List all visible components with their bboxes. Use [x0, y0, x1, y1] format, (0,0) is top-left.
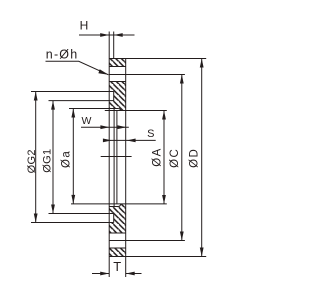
hatch upper rim block — [109, 59, 126, 67]
svg-text:H: H — [80, 19, 89, 33]
dimension H line — [79, 34, 135, 36]
flange top edge + OD extension — [109, 58, 206, 60]
arrow A bottom — [162, 195, 166, 204]
lower groove bottom wall — [113, 214, 115, 223]
hatch lower main block — [109, 204, 126, 233]
dimension W line — [81, 126, 129, 128]
hatch lower rim block — [109, 248, 126, 257]
leader n-Oh underline and leader — [46, 61, 109, 75]
bottom bolt hole upper edge — [109, 232, 126, 234]
arrow D top — [200, 59, 204, 68]
top bolt hole lower edge — [109, 81, 126, 83]
flange bottom edge + OD extension — [109, 256, 206, 258]
arrow C top — [180, 75, 184, 84]
socket A upper silhouette + extension — [105, 110, 167, 112]
dimension D line — [201, 59, 203, 257]
svg-text:ØD: ØD — [188, 148, 200, 168]
arrow H right — [114, 33, 123, 37]
socket mouth fillet top — [118, 109, 120, 111]
arrow S right — [127, 139, 136, 143]
svg-text:ØA: ØA — [151, 147, 163, 166]
arrow S left — [103, 139, 112, 143]
arrow a top — [71, 109, 75, 118]
shoulder upper edge + bore a extension — [69, 108, 118, 110]
dimension T line — [92, 273, 142, 275]
svg-text:Øa: Øa — [61, 150, 73, 168]
svg-text:n-Øh: n-Øh — [46, 47, 79, 61]
bolt circle extension lower — [109, 240, 185, 242]
top bolt hole upper edge — [109, 66, 126, 68]
arrow T right — [126, 272, 135, 276]
dimension C line — [181, 75, 183, 241]
arrow C bottom — [180, 232, 184, 241]
arrow leader n-Oh — [98, 69, 108, 75]
flange face line — [108, 32, 110, 278]
arrow G1 top — [51, 101, 55, 110]
svg-text:ØG2: ØG2 — [26, 149, 38, 173]
dimension G1 line — [52, 101, 54, 214]
arrow T left — [100, 272, 109, 276]
arrow G2 top — [34, 92, 38, 101]
arrow A top — [162, 111, 166, 120]
upper groove bottom wall — [113, 92, 115, 101]
dimension A line — [163, 111, 165, 204]
hatch upper main block — [109, 82, 126, 111]
svg-text:ØG1: ØG1 — [41, 149, 53, 173]
flange back face line — [125, 59, 127, 278]
svg-text:ØC: ØC — [169, 148, 181, 168]
svg-text:T: T — [113, 259, 121, 274]
bolt circle extension upper — [109, 74, 185, 76]
groove G1 lower edge + extension — [49, 213, 114, 215]
socket mouth fillet bottom — [118, 204, 120, 207]
socket A lower silhouette + extension — [71, 203, 167, 205]
centerline — [101, 156, 132, 158]
groove-bottom edge line V2 — [113, 32, 115, 207]
arrow W right — [117, 125, 126, 129]
dimension a line — [72, 109, 74, 204]
bore edge line V3 — [116, 111, 118, 204]
arrow H left — [100, 33, 109, 37]
arrow W left — [100, 125, 109, 129]
dimension S line — [103, 139, 156, 141]
arrow G2 bottom — [34, 214, 38, 223]
bottom bolt hole lower edge — [109, 247, 126, 249]
groove G1 upper edge + extension — [49, 100, 114, 102]
arrow a bottom — [71, 195, 75, 204]
groove G2 upper edge + extension — [31, 91, 114, 93]
svg-text:W: W — [82, 115, 92, 127]
arrow G1 bottom — [51, 205, 55, 214]
arrow D bottom — [200, 248, 204, 257]
shoulder lower edge — [109, 206, 118, 208]
svg-text:S: S — [147, 128, 154, 140]
groove G2 lower edge + extension — [31, 222, 114, 224]
dimension G2 line — [35, 92, 37, 223]
